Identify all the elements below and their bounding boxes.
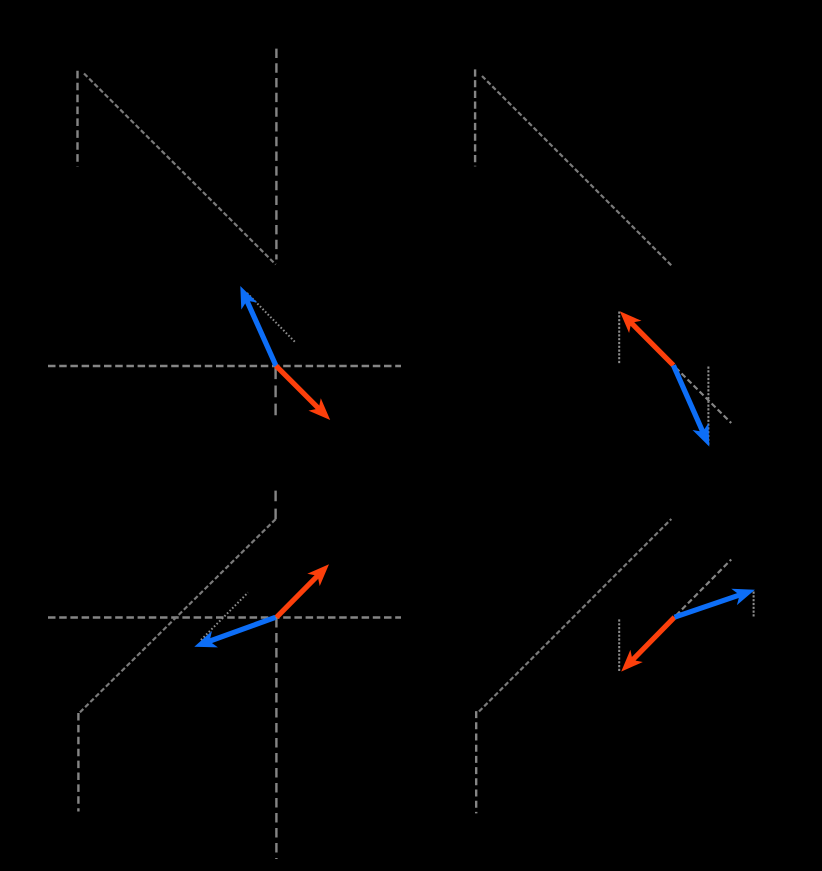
red velocity arrow, lower-right — [621, 617, 674, 671]
dashed horizontal surface line, lower-left — [48, 616, 401, 619]
dashed 45-deg trajectory, lower-left — [79, 519, 275, 713]
red velocity arrow, upper-left — [276, 366, 330, 420]
blue velocity arrow, upper-right — [673, 365, 709, 446]
dashed vertical below bounce point, lower-left — [275, 618, 277, 859]
blue velocity arrow, upper-left — [240, 286, 276, 366]
dashed horizontal surface line, upper-left — [48, 365, 401, 368]
dashed 45-deg trajectory, bottom-right — [479, 519, 671, 712]
dotted vertical through red tip, upper-right — [618, 312, 620, 365]
dotted vertical through blue tip, lower-right — [753, 592, 755, 617]
dashed 45-deg trajectory, top-right — [482, 76, 672, 266]
dashed vertical drop line, top-left end — [275, 49, 277, 260]
dashed 45-deg trajectory, top-left — [84, 74, 276, 265]
dashed 45-deg extension of red line, lower-right — [676, 560, 731, 616]
red velocity arrow, lower-left — [277, 564, 330, 617]
dotted 45-deg guide from blue tip, lower-left — [201, 593, 248, 641]
dashed 45-deg extension of red line, upper-right — [676, 368, 732, 424]
blue velocity arrow, lower-right — [675, 589, 755, 618]
dashed vertical drop line, top-left start — [76, 71, 78, 167]
dashed vertical drop line, bottom-right end — [475, 711, 477, 813]
red velocity arrow, upper-right — [620, 311, 674, 365]
dashed vertical below bounce point, upper-left — [274, 367, 276, 416]
dotted vertical through blue tip, upper-right — [707, 367, 709, 447]
blue velocity arrow, lower-left — [194, 617, 275, 647]
dotted 45-deg guide from blue tip, upper-left — [247, 293, 296, 343]
dotted vertical through red tip, lower-right — [618, 619, 620, 671]
dashed vertical drop line, lower-left end — [77, 713, 79, 812]
dashed vertical tick, lower-left top — [274, 491, 276, 520]
dashed vertical drop line, top-right start — [474, 69, 476, 166]
